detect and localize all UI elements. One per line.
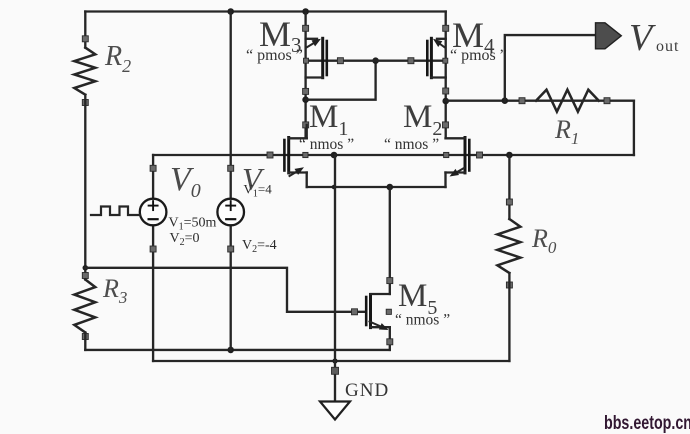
svg-text:V2=-4: V2=-4 (242, 238, 277, 255)
wire V0 column upper (152, 155, 154, 199)
arrow of M2 (nmos) (457, 168, 464, 172)
wire long input/gate row y=155 (153, 154, 634, 156)
wire M5 drain column (389, 187, 391, 294)
arrow of M4 (pmos) (440, 44, 445, 47)
wire V0 column lower (152, 225, 154, 361)
wire left column lower to bottom rail A (84, 333, 86, 350)
svg-text:“ nmos ”: “ nmos ” (384, 136, 439, 153)
wire top supply rail (85, 10, 445, 12)
node gate row / GND column (331, 152, 338, 159)
wire M3 diode loop to gate row (306, 61, 376, 100)
node top rail / V1 column junction (227, 8, 234, 15)
node M3 gate/drain tie (372, 57, 379, 64)
transistor M4 (pmos) (408, 25, 449, 94)
wire R0 bottom to rail B (508, 273, 510, 361)
arrow of M5 (nmos) (370, 322, 381, 327)
resistor R3 (74, 273, 95, 340)
node R2/R3/V0-row junction (83, 265, 89, 271)
wire pmos gate row y=60.7 (306, 60, 446, 62)
wire source row y=187 between M1 and M2 (307, 186, 446, 188)
svg-text:GND: GND (345, 380, 389, 401)
node output branch to Vout (502, 97, 509, 104)
node rail A / V1 column junction (227, 347, 234, 354)
wire M4/M2 drain column (445, 12, 447, 139)
wire GND column (334, 155, 336, 402)
wire R0 top column (508, 155, 510, 219)
square wave input glyph (91, 207, 140, 216)
ground symbol (320, 367, 350, 419)
wire Vout riser and top run (505, 35, 595, 101)
wire row 268 from R-junction to M5 gate corner (85, 268, 365, 312)
transistor M3 (pmos, diode-connected) (303, 25, 344, 94)
wire left column upper (R2 branch) (84, 12, 86, 48)
resistor R0 (497, 199, 520, 288)
source V0 circle (140, 165, 167, 252)
node source row / GND column crossing (332, 185, 337, 190)
wire V1 column lower (230, 225, 232, 350)
node gate row / R0 top (506, 152, 513, 159)
resistor R2 (74, 36, 95, 106)
node top rail / M3 column junction (302, 8, 309, 15)
svg-text:out: out (656, 38, 679, 55)
wire bottom rail A (R3 to M5 source) (85, 349, 390, 351)
arrow of M3 (pmos) (307, 43, 314, 47)
svg-text:“ pmos ”: “ pmos ” (450, 47, 507, 64)
svg-text:“ pmos ”: “ pmos ” (246, 47, 303, 64)
arrow of M1 (nmos) (290, 172, 297, 176)
node rail B / GND column junction (332, 358, 337, 363)
node M3 drain loop corner (302, 96, 309, 103)
terminal Vout arrow (596, 23, 622, 49)
wire R1 right feedback down to gate row (633, 101, 635, 155)
wire left column middle (R2 bottom to R3 top) (84, 95, 86, 280)
svg-text:V2=0: V2=0 (170, 231, 200, 248)
svg-text:bbs.eetop.cn: bbs.eetop.cn (604, 413, 690, 434)
transistor M5 (nmos tail source) (352, 278, 393, 350)
wire M4 drain to R1 row (446, 100, 634, 102)
wire bottom rail B (V0 bottom to R0 bottom) (153, 360, 509, 362)
svg-text:“ nmos ”: “ nmos ” (395, 312, 450, 329)
svg-text:“ nmos ”: “ nmos ” (299, 136, 354, 153)
source V1 circle (217, 165, 244, 252)
node M4 drain / output branch (442, 98, 449, 105)
resistor R1 (519, 90, 610, 112)
wire V1 column upper (230, 12, 232, 199)
svg-text:V: V (629, 17, 656, 59)
transistor M1 (nmos, left of diff pair) (267, 122, 309, 187)
node source row / M5 drain column (387, 184, 394, 191)
wire M3/M1 drain column (304, 12, 306, 139)
transistor M2 (nmos, right of diff pair) (443, 122, 483, 187)
